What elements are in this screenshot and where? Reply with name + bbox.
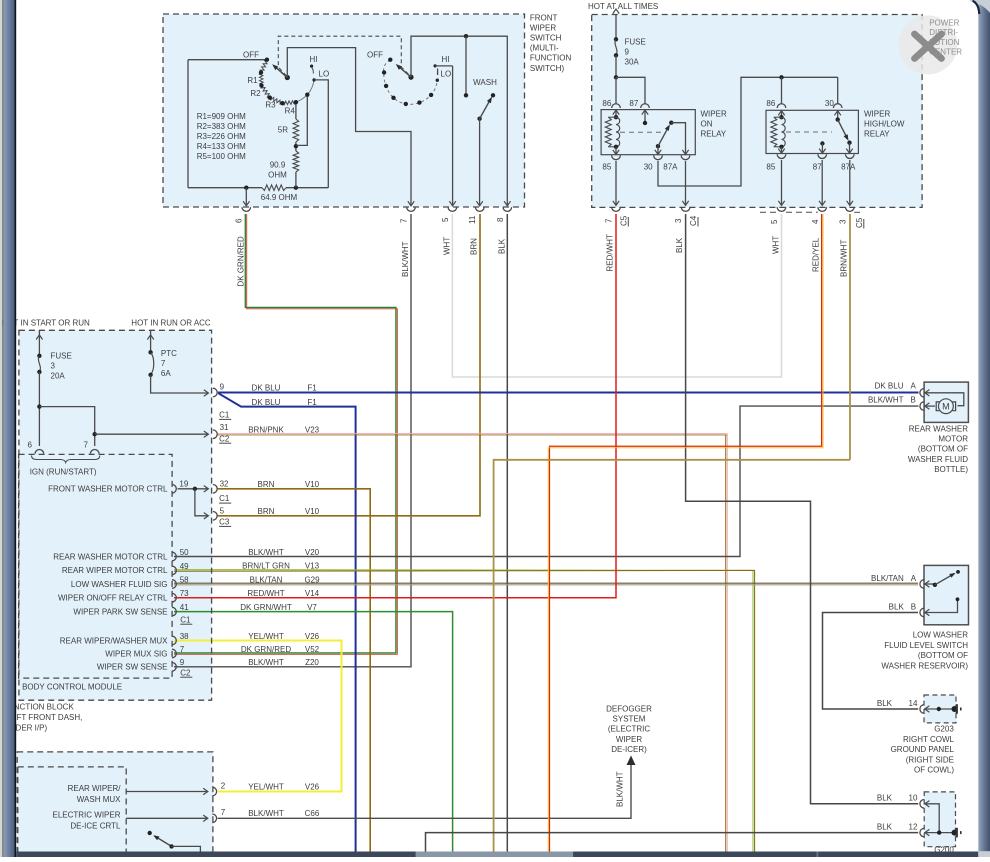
svg-text:(RIGHT SIDE: (RIGHT SIDE [906,755,954,764]
left rail wire [187,60,189,188]
svg-text:SYSTEM: SYSTEM [613,715,646,724]
svg-text:(BOTTOM OF: (BOTTOM OF [918,445,968,454]
power distribution center box border [592,15,922,208]
connector pin 5 at JB edge [213,512,217,521]
wire DK BLU F1 branch [219,393,356,851]
svg-text:BRN: BRN [470,238,479,255]
svg-text:31: 31 [220,423,229,432]
rotary switch 1 resistor arc R5 [282,101,296,105]
relay 2 pin 85 lead [781,147,783,154]
svg-text:3: 3 [51,362,56,371]
svg-text:BLK: BLK [877,794,893,803]
svg-text:FLUID LEVEL SWITCH: FLUID LEVEL SWITCH [884,641,968,650]
svg-text:A: A [911,381,917,390]
svg-text:9: 9 [220,382,225,391]
svg-text:RED/YEL: RED/YEL [812,237,821,272]
svg-text:RED/WHT: RED/WHT [247,589,284,598]
svg-text:5: 5 [770,219,779,224]
connector pin 9 at JB edge [213,388,217,397]
rotary switch 1 resistor arc R1 [260,60,267,73]
svg-text:30A: 30A [625,58,640,67]
svg-text:38: 38 [180,632,189,641]
svg-text:V14: V14 [305,589,320,598]
svg-text:7: 7 [605,218,614,223]
svg-text:WIPER: WIPER [701,110,727,119]
junction dot resistor bottom [294,186,298,190]
svg-text:Z20: Z20 [305,658,319,667]
rotary switch 2 wiper arm [408,75,413,80]
svg-text:C66: C66 [305,809,320,818]
svg-text:7: 7 [180,645,185,654]
power distribution center box fill [592,15,922,208]
svg-text:BRN: BRN [258,507,275,516]
front wiper switch box border [163,14,525,207]
wire PTC to pin 9 [151,375,208,393]
svg-text:F1: F1 [307,384,317,393]
svg-text:C2: C2 [180,668,191,677]
svg-text:BLK: BLK [675,237,684,253]
wire BLK 12 to ground G200 pin 12 [426,833,919,852]
svg-text:2: 2 [221,781,226,790]
svg-text:OFF: OFF [243,51,259,60]
ground panel G200 [924,792,955,847]
svg-text:R3=226 OHM: R3=226 OHM [197,132,246,141]
X close button [898,15,957,74]
junction dot relay2 86 feed [779,75,783,79]
wire pin 2 [126,791,207,793]
pin 5 connector [448,207,457,211]
svg-text:RIGHT COWL: RIGHT COWL [903,735,955,744]
svg-text:DISTRI-: DISTRI- [929,28,958,37]
rotary switch 1 contact dots [265,58,269,62]
relay 1 switch arm [656,144,660,148]
svg-text:5: 5 [441,217,450,222]
svg-text:WASHER RESERVOIR): WASHER RESERVOIR) [881,661,968,670]
svg-text:FRONT WASHER MOTOR CTRL: FRONT WASHER MOTOR CTRL [48,485,168,494]
ground panel G203 box fill [924,695,956,723]
svg-text:FUSE: FUSE [625,38,646,47]
fuse 3 20A [38,330,40,356]
svg-text:C4: C4 [689,215,698,226]
svg-text:WASH: WASH [473,78,497,87]
svg-text:DK BLU: DK BLU [252,398,281,407]
relay 2 87A stub [849,143,851,154]
svg-text:9: 9 [625,48,630,57]
wire fuse to relay pin 86 [615,77,617,103]
svg-text:BLK/TAN: BLK/TAN [871,574,904,583]
wire BLK from fluid switch pin B to ground G203 pin 14 [823,613,919,710]
relay 1 pin 86 connector [612,104,621,108]
LO contact wire switch 1 [312,78,315,81]
svg-text:V26: V26 [305,632,320,641]
wire BLK/WHT C66 to defogger system [218,759,631,819]
wash fixed contact wire [465,36,467,93]
lower junction block box fill [17,752,213,853]
defogger system arrow [627,756,636,766]
svg-text:87: 87 [813,163,822,172]
svg-text:73: 73 [180,589,189,598]
svg-text:DK BLU: DK BLU [252,384,281,393]
relay 1 pin 87 contact [644,110,646,123]
svg-text:86: 86 [766,99,775,108]
relay 2 87 stub [820,141,824,145]
wire pin 19 to connectors 32 and 5 [178,488,208,490]
svg-text:FUSE: FUSE [51,352,72,361]
wash switch arm [477,117,481,121]
svg-text:20A: 20A [51,372,66,381]
svg-text:87A: 87A [663,163,678,172]
junction dot pin 6 tap [244,186,248,190]
svg-text:85: 85 [602,163,611,172]
wire to relay2 pin 86 [781,77,783,103]
HI contact switch 1 [310,65,313,68]
svg-text:V7: V7 [307,603,317,612]
svg-text:C1: C1 [219,411,230,420]
svg-text:30: 30 [825,99,834,108]
svg-text:V20: V20 [305,548,320,557]
pin 8 connector [503,207,512,211]
pin 6 lead arrow [245,188,247,206]
svg-text:7: 7 [84,440,89,449]
relay 1 coil [613,110,619,115]
svg-text:64.9 OHM: 64.9 OHM [261,193,298,202]
relay 1 pin 30 lead [657,146,659,155]
svg-text:C5: C5 [855,217,864,228]
svg-text:R2=383 OHM: R2=383 OHM [197,122,246,131]
svg-text:14: 14 [909,699,918,708]
svg-text:R1: R1 [247,76,258,85]
svg-text:YEL/WHT: YEL/WHT [248,782,284,791]
window right frame bar [978,0,990,857]
svg-text:BOTTLE): BOTTLE) [934,465,968,474]
svg-text:(BOTTOM OF: (BOTTOM OF [918,651,968,660]
svg-text:C3: C3 [219,518,230,527]
svg-text:CENTER: CENTER [929,48,962,57]
body control module box border [19,454,173,678]
svg-text:WHT: WHT [443,237,452,255]
svg-text:M: M [942,401,950,411]
svg-text:MOTOR: MOTOR [938,435,968,444]
rotary switch 2 contact dots [388,58,392,62]
wiper high/low relay box [766,110,858,153]
svg-text:9: 9 [180,658,185,667]
svg-text:10: 10 [909,794,918,803]
G203 pin 14 connector [920,705,924,714]
connector C5 pin 7 [612,207,621,211]
wire OFF contact to left rail [188,59,266,61]
svg-text:12: 12 [909,822,918,831]
motor pin B connector [920,402,924,411]
svg-text:11: 11 [468,215,477,224]
resistor 5R [295,102,297,119]
svg-text:BLK/WHT: BLK/WHT [248,658,284,667]
svg-text:8: 8 [496,217,505,222]
svg-text:DE-ICE CRTL: DE-ICE CRTL [70,821,121,830]
svg-text:BUTION: BUTION [929,38,959,47]
svg-text:BLK: BLK [877,822,893,831]
svg-text:V10: V10 [305,480,320,489]
svg-text:5: 5 [220,506,225,515]
lower junction block outer border [17,752,213,857]
rotary switch 1 resistor arc R3 [261,86,270,98]
svg-text:YEL/WHT: YEL/WHT [248,632,284,641]
rotary switch 1 resistor arc R2 [259,73,263,86]
front wiper switch box fill [163,14,525,207]
svg-text:BRN: BRN [258,480,275,489]
rotary switch 1 wiper arm [285,75,290,80]
svg-text:R3: R3 [265,101,276,110]
svg-text:C1: C1 [219,494,230,503]
svg-text:(ELECTRIC: (ELECTRIC [608,725,650,734]
svg-text:ELECTRIC WIPER: ELECTRIC WIPER [52,810,120,819]
svg-text:41: 41 [180,603,189,612]
wire BRN V10 from connector C1 pin 32 [218,489,371,852]
svg-text:BLK: BLK [877,699,893,708]
wire pivot 2 to pin 8 [411,36,507,205]
junction dot fuse 3 branch [37,404,41,408]
relay 2 pin 86 connector [777,104,786,108]
ground panel G200 box fill [924,792,955,847]
svg-text:WIPER: WIPER [616,735,642,744]
connector pin 31 at JB edge [213,430,217,439]
fuse 9 30A [614,37,618,41]
wire relay2 87 down [821,160,823,205]
relay 2 coil [778,111,784,116]
svg-text:WIPER MUX SIG: WIPER MUX SIG [105,649,167,658]
svg-text:RELAY: RELAY [864,130,890,139]
svg-text:6A: 6A [161,369,171,378]
svg-text:C5: C5 [620,215,629,226]
svg-text:30: 30 [644,163,653,172]
svg-text:V23: V23 [305,425,320,434]
lower junction block inner border [18,767,126,857]
relay 2 pin 30 connector [833,104,842,108]
wire DK GRN/WHT V7 from BCM pin 41 [174,612,453,852]
junction dot wash feed [464,34,468,38]
wire BRN/LT GRN V13 from BCM pin 49 [174,570,753,852]
rotary switch 1 thin arc to LO [296,80,314,102]
wire relay2 85 down [781,160,783,205]
wire DK BLU F1 main run to rear washer motor pin A [218,392,919,394]
svg-text:5R: 5R [278,126,288,135]
svg-text:LO: LO [319,70,330,79]
pin 6 connector [242,207,251,211]
svg-text:86: 86 [602,99,611,108]
wire BRN V10 from switch pin 11 to connector C3 pin 5 [218,214,480,516]
svg-text:REAR WASHER: REAR WASHER [909,425,968,434]
svg-text:58: 58 [180,575,189,584]
wire DK GRN/RED V52 from switch pin 6 to BCM pin 7 [174,214,396,653]
wire HI to pin 5 [452,66,454,205]
wire BLK/WHT Z20 from switch pin 7 to BCM pin 9 [174,214,411,667]
svg-text:V26: V26 [305,782,320,791]
wire RED/WHT V14 from BCM pin 73 to relay 85 [174,214,616,598]
wire fuse branch to pin 7 [39,407,94,446]
svg-text:GROUND PANEL: GROUND PANEL [891,745,955,754]
relay 2 bottom connectors [777,154,786,158]
connector C5 relay 2 pins [777,207,786,211]
svg-text:BLK/WHT: BLK/WHT [401,241,410,277]
PTC 7 6A [150,330,152,352]
svg-text:HIGH/LOW: HIGH/LOW [864,120,905,129]
svg-text:3: 3 [674,218,683,223]
svg-text:A: A [911,574,917,583]
low washer fluid level switch box [924,565,969,624]
bypass wire around 5R [297,95,308,146]
rotary switch 2 dashed arc [384,60,438,105]
svg-text:HI: HI [310,55,318,64]
svg-text:R1=909 OHM: R1=909 OHM [197,112,246,121]
junction dot fuse output [614,75,618,79]
wire BRN/WHT from relay 87A [849,214,851,460]
svg-text:BLK/WHT: BLK/WHT [248,548,284,557]
svg-text:V52: V52 [305,645,320,654]
svg-text:POWER: POWER [929,19,959,28]
svg-text:R4: R4 [285,107,296,116]
G200 pin 10 internal wire [924,804,939,833]
svg-text:WIPER SW SENSE: WIPER SW SENSE [97,663,168,672]
svg-text:6: 6 [28,440,33,449]
svg-text:85: 85 [766,163,775,172]
svg-text:4: 4 [811,219,820,224]
svg-text:DEFOGGER: DEFOGGER [606,705,652,714]
svg-text:LOW WASHER: LOW WASHER [913,631,968,640]
motor pin A connector [920,389,924,398]
G200 pin 12 connector [920,828,924,837]
wire to relay2 pin 30 [837,77,839,103]
svg-text:V10: V10 [305,507,320,516]
svg-text:ON: ON [701,120,713,129]
wire RED/YEL from relay 87 [550,214,822,852]
svg-text:SWITCH): SWITCH) [530,64,565,73]
pin 11 connector [476,207,485,211]
svg-text:REAR WASHER MOTOR CTRL: REAR WASHER MOTOR CTRL [53,552,168,561]
svg-text:REAR WIPER/WASHER MUX: REAR WIPER/WASHER MUX [60,636,168,645]
ground panel G203 [924,695,956,723]
wire wash pivot to pin 11 [479,119,481,206]
relay 1 arm output to 87A [671,123,685,155]
svg-text:WASH MUX: WASH MUX [77,795,121,804]
svg-text:HOT IN RUN OR ACC: HOT IN RUN OR ACC [131,319,211,328]
rear washer motor symbol [924,393,964,406]
wire BLK from switch pin 8 [506,214,508,852]
svg-text:REAR WIPER MOTOR CTRL: REAR WIPER MOTOR CTRL [62,566,168,575]
svg-text:BLK/WHT: BLK/WHT [248,809,284,818]
svg-text:BRN/PNK: BRN/PNK [248,425,284,434]
LO tick switch 2 [437,69,439,76]
wire relay2 87A down [849,160,851,205]
curly brace IGN [32,456,100,463]
wire relay1 87A down [685,161,687,205]
svg-text:WASHER FLUID: WASHER FLUID [908,455,968,464]
svg-text:PTC: PTC [161,349,177,358]
svg-text:DK GRN/WHT: DK GRN/WHT [240,603,292,612]
junction block box fill [19,330,212,700]
svg-text:90.9: 90.9 [270,160,286,169]
svg-text:C1: C1 [180,615,191,624]
svg-text:BLK/WHT: BLK/WHT [868,396,904,405]
low washer fluid level switch symbol [925,581,930,587]
svg-text:DK GRN/RED: DK GRN/RED [237,236,246,286]
wire pin 7 lower [126,817,207,819]
svg-text:BRN/LT GRN: BRN/LT GRN [242,562,290,571]
relay 2 switch arm [838,120,848,139]
svg-text:WHT: WHT [772,236,781,254]
svg-text:50: 50 [180,548,189,557]
connector pin 32 at JB edge [213,484,217,493]
svg-text:R2: R2 [250,89,261,98]
svg-text:32: 32 [220,479,229,488]
svg-text:7: 7 [400,218,409,223]
junction block box border [19,330,212,700]
pin 7 connector [407,207,416,211]
svg-text:RED/WHT: RED/WHT [606,234,615,271]
svg-text:WIPER: WIPER [864,110,890,119]
fluid switch pin A connector [920,580,924,589]
svg-text:B: B [911,396,916,405]
wire BRN/PNK V23 [218,432,727,434]
HI contact switch 2 [434,64,437,67]
svg-text:OF COWL): OF COWL) [914,766,954,775]
pin 7 connector at BCM [90,450,99,454]
svg-text:WIPER: WIPER [530,24,556,33]
svg-text:49: 49 [180,562,189,571]
svg-text:SWITCH: SWITCH [530,34,562,43]
wire relay1 85 to pin 7 [615,161,617,205]
relay 2 dashed actuator line [786,131,832,133]
wire to pin 31 [95,433,208,435]
svg-text:DK GRN/RED: DK GRN/RED [241,645,291,654]
wire fuse to relay pin 87 [616,77,645,103]
svg-text:DE-ICER): DE-ICER) [611,745,647,754]
svg-text:FRONT: FRONT [530,14,558,23]
svg-text:RELAY: RELAY [701,130,727,139]
svg-text:REAR WIPER/: REAR WIPER/ [68,784,122,793]
svg-text:BODY CONTROL MODULE: BODY CONTROL MODULE [22,682,122,691]
svg-text:B: B [911,602,916,611]
wire YEL/WHT V26 from BCM pin 38 to junction block pin 2 [174,641,342,792]
relay 1 bottom connectors [612,155,621,159]
svg-text:F1: F1 [307,398,317,407]
svg-text:HOT AT ALL TIMES: HOT AT ALL TIMES [588,2,658,11]
svg-text:C2: C2 [219,434,230,443]
wiper arm pivot feed wire switch 1 [287,48,411,206]
de-ice switch [148,831,152,835]
G200 pin 10 connector [920,800,924,809]
relay 1 pin 87 connector [641,104,650,108]
svg-text:87: 87 [629,99,638,108]
svg-text:G29: G29 [304,575,320,584]
svg-text:BLK/TAN: BLK/TAN [250,575,283,584]
svg-text:BLK: BLK [498,238,507,254]
BCM pin 19 connector [172,484,176,493]
wire WHT from switch pin 5 to relay 85 [452,214,781,377]
svg-text:7: 7 [161,359,166,368]
svg-text:V13: V13 [305,562,320,571]
svg-text:OHM: OHM [268,170,287,179]
svg-text:R4=133 OHM: R4=133 OHM [197,142,246,151]
svg-text:G203: G203 [934,724,954,733]
svg-text:BLK/WHT: BLK/WHT [616,771,625,807]
svg-text:WIPER ON/OFF RELAY CTRL: WIPER ON/OFF RELAY CTRL [58,594,168,603]
resistor 90.9 OHM [295,146,297,151]
pin 6 connector at BCM [35,450,44,454]
G200 pin 12 internal wire [925,829,930,835]
svg-text:LOW WASHER FLUID SIG: LOW WASHER FLUID SIG [71,580,168,589]
svg-text:6: 6 [235,218,244,223]
wire BLK C4 from relay 87A to ground G200 pin 10 [686,214,919,804]
fluid switch pin B connector [920,608,924,617]
